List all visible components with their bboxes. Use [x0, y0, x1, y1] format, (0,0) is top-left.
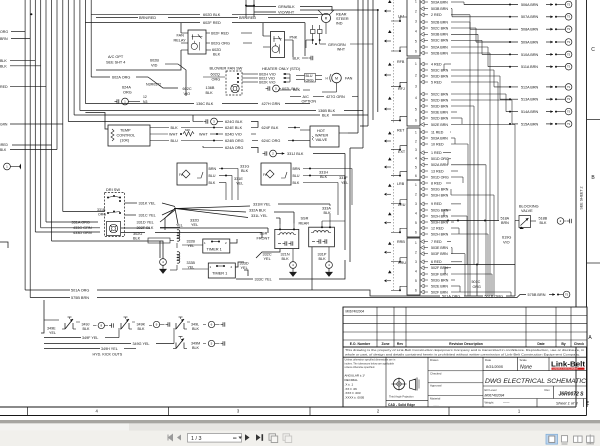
svg-text:RED: RED — [0, 85, 8, 89]
wire 433 rails to SSR — [121, 227, 150, 229]
svg-text:BLK: BLK — [0, 59, 7, 63]
connector TS bottom — [563, 291, 570, 298]
svg-text:518B: 518B — [539, 217, 548, 221]
svg-text:BRN: BRN — [501, 221, 509, 225]
svg-text:4: 4 — [415, 157, 417, 161]
svg-text:This drawing is the property o: This drawing is the property of Link-Bel… — [345, 348, 585, 352]
svg-text:602A ORG: 602A ORG — [112, 76, 130, 80]
svg-text:WHT: WHT — [169, 133, 178, 137]
svg-text:4: 4 — [415, 96, 417, 100]
wires blower to heater — [242, 73, 258, 75]
toolbar first page button — [168, 435, 173, 441]
statusbar continuous view icon — [562, 436, 568, 442]
svg-text:TS: TS — [567, 3, 570, 6]
svg-text:Third Angle Projection: Third Angle Projection — [389, 396, 414, 399]
flasher F2 — [261, 163, 291, 185]
svg-text:136B BLK: 136B BLK — [318, 109, 336, 113]
wire rail 575B BRN — [30, 297, 70, 299]
svg-text:BLK: BLK — [206, 91, 214, 95]
third angle projection symbol — [393, 378, 404, 389]
svg-text:6: 6 — [415, 231, 417, 235]
svg-text:BLK: BLK — [133, 237, 141, 241]
svg-text:EO Level: EO Level — [485, 388, 497, 392]
svg-text:1: 1 — [415, 183, 417, 187]
svg-text:HEATER ONLY (STD): HEATER ONLY (STD) — [262, 66, 301, 71]
wire 433D GRN turn — [35, 231, 100, 233]
connector hex 5 and 602L BLK — [267, 86, 269, 90]
svg-text:R: R — [325, 17, 328, 21]
svg-text:331L YEL: 331L YEL — [251, 214, 267, 218]
svg-text:/RED: /RED — [0, 143, 8, 147]
sheet inner border right — [575, 0, 577, 407]
svg-text:502H BRN: 502H BRN — [431, 214, 449, 218]
svg-text:331E: 331E — [234, 177, 243, 181]
svg-text:13 RED: 13 RED — [431, 169, 444, 173]
svg-text:511A BRN: 511A BRN — [521, 65, 538, 69]
wire drop to fan relay — [304, 23, 306, 56]
svg-text:J6R0072 S: J6R0072 S — [558, 391, 584, 397]
wire left stub BLU/RED — [12, 144, 52, 146]
svg-text:503G BRN: 503G BRN — [431, 187, 449, 191]
svg-text:502A BRN: 502A BRN — [431, 163, 448, 167]
connector circle 2 blocking — [557, 218, 564, 225]
svg-text:7 RED: 7 RED — [431, 240, 442, 244]
horizontal scrollbar track — [129, 423, 600, 430]
svg-text:Approval: Approval — [430, 384, 442, 388]
wire left stub RED — [10, 86, 46, 88]
svg-text:BLK: BLK — [0, 148, 7, 152]
svg-text:M067402094: M067402094 — [485, 393, 505, 397]
svg-text:BLK: BLK — [138, 327, 146, 331]
svg-text:SEE SHT 4: SEE SHT 4 — [106, 61, 125, 65]
switch HYD3 — [175, 323, 177, 329]
svg-text:503D BRN: 503D BRN — [431, 104, 449, 108]
wire 513A BRN to TS — [500, 98, 518, 100]
wire 624 feed — [68, 121, 193, 123]
wire 331A ORG turn — [46, 221, 98, 223]
svg-text:3: 3 — [415, 19, 417, 23]
svg-text:602G ORG: 602G ORG — [211, 42, 230, 46]
wire blocking valve feed — [430, 220, 499, 222]
svg-text:BLK: BLK — [293, 57, 301, 61]
svg-text:602D BLK: 602D BLK — [203, 13, 221, 17]
svg-text:.X ± .1: .X ± .1 — [345, 382, 354, 386]
svg-text:SSR: SSR — [260, 232, 268, 236]
svg-text:GRN: GRN — [0, 123, 8, 127]
wire 331M YEL — [175, 206, 250, 209]
svg-text:.XX ± .06: .XX ± .06 — [345, 387, 358, 391]
svg-text:VIO: VIO — [503, 241, 510, 245]
svg-text:3: 3 — [415, 85, 417, 89]
wire 331K YEL — [125, 202, 138, 204]
svg-text:333C YEL: 333C YEL — [255, 277, 272, 281]
svg-text:YEL: YEL — [236, 182, 243, 186]
svg-text:BLOCKING: BLOCKING — [519, 205, 539, 209]
svg-text:5: 5 — [415, 221, 417, 225]
svg-text:BLK: BLK — [540, 221, 548, 225]
svg-text:FRONT: FRONT — [257, 237, 271, 241]
svg-text:2: 2 — [415, 73, 417, 77]
statusbar continuous facing icon — [587, 436, 594, 442]
svg-text:501A ORG: 501A ORG — [442, 295, 460, 299]
svg-text:RRB: RRB — [397, 240, 405, 244]
svg-text:502E BRN: 502E BRN — [431, 123, 448, 127]
zone tick right 1 — [587, 119, 600, 121]
svg-text:332A BLK: 332A BLK — [249, 208, 266, 212]
svg-text:321N: 321N — [281, 253, 290, 257]
svg-text:331M YEL: 331M YEL — [253, 202, 271, 206]
svg-text:PNK: PNK — [290, 36, 298, 40]
svg-text:YEL: YEL — [176, 224, 183, 228]
wire 501C ORG drop — [430, 264, 515, 266]
svg-text:BLK: BLK — [241, 169, 249, 173]
svg-text:ORG: ORG — [98, 213, 106, 217]
wire left stub ORG — [11, 31, 25, 33]
svg-text:510A BRN: 510A BRN — [521, 53, 539, 57]
svg-text:502D BRN: 502D BRN — [431, 98, 449, 102]
svg-text:503E BRN: 503E BRN — [431, 246, 448, 250]
wire 624A ORG row — [203, 147, 223, 149]
svg-text:FAN: FAN — [345, 77, 353, 81]
svg-text:331G: 331G — [240, 165, 249, 169]
svg-text:349L: 349L — [191, 323, 199, 327]
switch bank RFB/RFJ — [407, 58, 420, 126]
svg-text:BLK: BLK — [320, 175, 328, 179]
wire kick feed — [41, 300, 44, 333]
svg-text:VIO/WHT: VIO/WHT — [278, 11, 295, 15]
svg-text:349G YEL: 349G YEL — [133, 342, 150, 346]
svg-text:A/C: A/C — [303, 95, 310, 99]
svg-text:C: C — [591, 47, 595, 53]
horizontal scrollbar thumb — [0, 423, 129, 430]
svg-text:624F BLK: 624F BLK — [262, 126, 279, 130]
wire GRN/BLK — [246, 6, 276, 8]
switch bank /LFJ — [407, 0, 420, 56]
svg-text:TS: TS — [567, 110, 570, 113]
svg-text:WHT: WHT — [199, 133, 208, 137]
statusbar single page view button active — [546, 434, 558, 444]
svg-text:1: 1 — [415, 0, 417, 3]
svg-text:433C GRN: 433C GRN — [73, 226, 92, 230]
zone tick bottom 2 — [168, 407, 170, 416]
svg-text:3: 3 — [415, 148, 417, 152]
wire 510A BRN to TS — [482, 53, 518, 55]
wire mid vertical 378 — [377, 10, 379, 112]
wire 514A BRN to TS — [506, 111, 518, 113]
label BLU ORG fan — [305, 74, 316, 83]
svg-text:349F YEL: 349F YEL — [82, 336, 98, 340]
svg-text:624E BLK: 624E BLK — [225, 126, 243, 130]
svg-text:IND: IND — [336, 22, 343, 26]
svg-text:331P: 331P — [318, 253, 327, 257]
svg-text:BLK: BLK — [322, 114, 330, 118]
svg-text:501D ORG: 501D ORG — [431, 175, 449, 179]
svg-text:624A: 624A — [122, 86, 131, 90]
svg-text:5: 5 — [415, 165, 417, 169]
svg-text:WATER: WATER — [315, 134, 329, 138]
connector circle 8 — [98, 322, 104, 328]
svg-text:12: 12 — [143, 95, 147, 99]
wire 602A ORG — [91, 76, 110, 78]
svg-text:624B ORG: 624B ORG — [225, 139, 244, 143]
svg-text:331A ORG: 331A ORG — [72, 220, 90, 224]
svg-text:502B BRN: 502B BRN — [431, 20, 448, 24]
wire 349F YEL — [44, 337, 81, 339]
relay K1 FAN RELAY — [188, 30, 206, 54]
svg-text:BRN: BRN — [0, 37, 8, 41]
svg-text:575B BRN: 575B BRN — [528, 293, 546, 297]
svg-text:TS: TS — [567, 86, 570, 89]
svg-text:4 RED: 4 RED — [431, 62, 442, 66]
svg-text:427G GRN: 427G GRN — [326, 95, 345, 99]
svg-text:Fe: Fe — [179, 173, 183, 177]
svg-text:1: 1 — [415, 241, 417, 245]
svg-text:602Q: 602Q — [211, 73, 220, 77]
svg-text:602F RED: 602F RED — [203, 21, 221, 25]
svg-text:REAR: REAR — [299, 222, 310, 226]
zone tick bottom 4 — [448, 407, 450, 416]
svg-text:619G: 619G — [502, 236, 511, 240]
svg-text:332B: 332B — [187, 240, 196, 244]
svg-text:508A BRN: 508A BRN — [521, 28, 539, 32]
svg-text:11 RED: 11 RED — [431, 130, 444, 134]
svg-text:TS: TS — [567, 41, 570, 44]
svg-text:513A BRN: 513A BRN — [521, 98, 539, 102]
fuse pair — [311, 30, 316, 34]
svg-text:OPTION: OPTION — [302, 100, 317, 104]
svg-text:502A BRN: 502A BRN — [431, 45, 448, 49]
svg-text:12 RED: 12 RED — [431, 226, 444, 230]
toolbar page combobox — [188, 434, 242, 443]
wire 509A BRN to TS — [476, 41, 518, 43]
svg-text:VALVE: VALVE — [521, 209, 533, 213]
flasher F1 — [177, 163, 207, 185]
svg-text:331C YEL: 331C YEL — [139, 213, 156, 217]
relay K2 PNK — [271, 32, 285, 58]
wire 427H GRN — [85, 103, 194, 105]
svg-text:503F BRN: 503F BRN — [431, 272, 448, 276]
svg-text:Weight: Weight — [485, 400, 494, 404]
svg-text:BRN: BRN — [209, 167, 217, 171]
svg-text:RFB: RFB — [397, 60, 405, 64]
svg-text:503F BRN: 503F BRN — [431, 252, 448, 256]
svg-text:501D ORG: 501D ORG — [431, 157, 449, 161]
toolbar next view icon — [283, 434, 290, 441]
svg-text:136C BLK: 136C BLK — [196, 102, 214, 106]
zone tick right 2 — [587, 262, 600, 264]
svg-text:502H BRN: 502H BRN — [431, 232, 449, 236]
wire bundle left verticals — [24, 0, 26, 290]
svg-text:RELAY: RELAY — [174, 39, 187, 43]
svg-text:FAN: FAN — [177, 34, 185, 38]
svg-text:331J BLK: 331J BLK — [287, 152, 304, 156]
wire left corner bottom — [0, 242, 8, 248]
svg-text:503A BRN: 503A BRN — [431, 136, 448, 140]
svg-text:8/31/2005: 8/31/2005 — [486, 365, 504, 369]
svg-text:332D: 332D — [190, 219, 199, 223]
sheet inner border bottom — [0, 406, 576, 408]
svg-text:502C BRN: 502C BRN — [431, 92, 449, 96]
svg-text:502C BRN: 502C BRN — [431, 26, 449, 30]
coil T1 a — [148, 238, 170, 243]
resistor 62K row WHT — [150, 133, 168, 135]
svg-text:331F: 331F — [339, 176, 348, 180]
wire 331L YEL — [175, 209, 248, 218]
svg-text:YEL: YEL — [191, 223, 198, 227]
svg-text:YEL: YEL — [264, 257, 271, 261]
sheet outer border right — [586, 0, 588, 416]
svg-text:EXT: EXT — [398, 150, 406, 154]
svg-text:M: M — [335, 77, 338, 81]
svg-text:4: 4 — [415, 270, 417, 274]
svg-text:509A BRN: 509A BRN — [521, 40, 539, 44]
svg-text:CONSTRUCTION EQUIPMENT: CONSTRUCTION EQUIPMENT — [553, 369, 580, 371]
svg-text:DWG ELECTRICAL SCHEMATIC: DWG ELECTRICAL SCHEMATIC — [485, 378, 587, 385]
svg-text:YEL: YEL — [188, 244, 195, 248]
svg-text:BLK: BLK — [171, 126, 179, 130]
toolbar prev view icon — [269, 434, 276, 441]
svg-text:502B BRN: 502B BRN — [431, 51, 448, 55]
svg-text:503H BRN: 503H BRN — [431, 193, 449, 197]
svg-text:GRY/GRN: GRY/GRN — [328, 43, 346, 47]
svg-text:Fe: Fe — [263, 173, 267, 177]
svg-text:349M: 349M — [191, 342, 200, 346]
svg-text:BLU: BLU — [293, 174, 300, 178]
svg-text:HYD. KICK OUTS: HYD. KICK OUTS — [93, 353, 123, 357]
svg-text:501A ORG: 501A ORG — [71, 288, 89, 292]
svg-text:503G BRN: 503G BRN — [431, 278, 449, 282]
svg-text:136B: 136B — [206, 86, 215, 90]
svg-text:BLK: BLK — [192, 346, 200, 350]
svg-text:N3R0572: N3R0572 — [146, 83, 161, 87]
svg-text:8 RED: 8 RED — [431, 181, 442, 185]
connector circle 6 — [208, 321, 214, 327]
wire left stub BLK c — [10, 149, 57, 151]
toolbar last page button — [256, 434, 261, 441]
svg-text:502E BRN: 502E BRN — [431, 284, 448, 288]
wire 624E BLK row — [150, 127, 169, 129]
svg-text:RET: RET — [397, 129, 405, 133]
svg-text:Date: Date — [537, 342, 544, 346]
svg-text:E.O. Number: E.O. Number — [350, 342, 371, 346]
svg-text:Rev: Rev — [545, 388, 551, 392]
svg-text:5: 5 — [415, 107, 417, 111]
wire left stub BLK a — [10, 59, 35, 61]
svg-text:CAD - Solid Edge: CAD - Solid Edge — [388, 403, 415, 407]
svg-text:TS: TS — [567, 123, 570, 126]
svg-text:DECIMAL: DECIMAL — [345, 378, 359, 382]
wire 602G ORG relay — [206, 42, 210, 44]
svg-text:2: 2 — [415, 9, 417, 13]
svg-text:TIMER 1: TIMER 1 — [207, 247, 222, 252]
wire SSR REAR left pin to rail — [311, 247, 313, 290]
svg-text:whole or part, of design and d: whole or part, of design and details con… — [345, 352, 580, 356]
toolbar prev page button — [177, 435, 181, 441]
svg-text:E: E — [586, 400, 589, 405]
svg-text:BLOWER FAN SW: BLOWER FAN SW — [210, 66, 243, 71]
toolbar background — [0, 431, 600, 446]
statusbar facing pages icon — [574, 436, 583, 442]
junction dots top — [30, 13, 32, 15]
svg-text:RFJ: RFJ — [398, 87, 405, 91]
svg-text:ORG: ORG — [123, 91, 132, 95]
svg-text:331H: 331H — [319, 171, 328, 175]
svg-text:BLK: BLK — [0, 64, 7, 68]
svg-text:5: 5 — [415, 39, 417, 43]
svg-text:503C BRN: 503C BRN — [431, 68, 449, 72]
connector circle 1 left — [4, 163, 11, 170]
svg-text:502F BRN: 502F BRN — [431, 266, 448, 270]
svg-text:6: 6 — [415, 289, 417, 293]
svg-text:624A ORG: 624A ORG — [225, 146, 243, 150]
timer TIMER 1 second — [208, 263, 235, 278]
svg-text:Link-Belt: Link-Belt — [551, 362, 586, 369]
svg-text:VIO: VIO — [184, 92, 191, 96]
svg-text:BRN/RED: BRN/RED — [139, 16, 156, 20]
wire 602D BLK — [91, 13, 200, 15]
svg-text:602F RED: 602F RED — [211, 32, 229, 36]
svg-text:602K VIO: 602K VIO — [259, 81, 276, 85]
svg-text:Sheet 1 of 3: Sheet 1 of 3 — [556, 400, 578, 405]
svg-text:GRN/BLK: GRN/BLK — [278, 5, 295, 9]
svg-text:6: 6 — [415, 49, 417, 53]
wire 331J BLK connector 2 — [264, 151, 266, 155]
svg-text:331B: 331B — [97, 208, 106, 212]
wire 602D BLK relay — [206, 49, 211, 51]
svg-text:512A BRN: 512A BRN — [521, 85, 539, 89]
svg-text:TS: TS — [567, 66, 570, 69]
svg-text:YEL: YEL — [241, 266, 248, 270]
svg-text:1 RED: 1 RED — [431, 151, 442, 155]
scrollbar separator band — [0, 420, 600, 423]
wire fan relay left stubs — [181, 32, 188, 34]
svg-text:333A: 333A — [322, 207, 331, 211]
svg-text:LRB: LRB — [397, 182, 405, 186]
svg-text:6: 6 — [415, 119, 417, 123]
switch bank RET/EXT — [407, 128, 420, 180]
svg-text:624C ORG: 624C ORG — [262, 139, 281, 143]
svg-text:503D BRN: 503D BRN — [431, 74, 449, 78]
svg-text:BLU: BLU — [171, 139, 179, 143]
wire GRY/GRN WHT — [320, 43, 326, 45]
svg-text:CONTROL: CONTROL — [117, 134, 136, 138]
svg-text:YEL: YEL — [49, 331, 56, 335]
svg-text:TS: TS — [567, 28, 570, 31]
svg-text:Revision Description: Revision Description — [449, 342, 483, 346]
svg-text:501B ORG: 501B ORG — [485, 295, 504, 299]
wire 515A BRN to TS — [512, 123, 518, 125]
svg-text:9 RED: 9 RED — [431, 202, 442, 206]
svg-text:BLK: BLK — [293, 88, 301, 92]
svg-text:——: —— — [503, 400, 510, 404]
connector 624G row — [205, 119, 207, 123]
svg-text:A/C OPT: A/C OPT — [108, 55, 124, 59]
svg-text:BLK: BLK — [324, 211, 332, 215]
svg-text:Zone: Zone — [381, 342, 389, 346]
svg-text:BRN: BRN — [293, 167, 301, 171]
wire 602F RED relay — [206, 32, 210, 34]
svg-text:624D VIO: 624D VIO — [225, 133, 242, 137]
rotary inside DRI SW — [107, 222, 121, 236]
wire BRN/RED rail — [96, 17, 138, 19]
wire 349H YEL — [44, 348, 100, 350]
svg-text:TS: TS — [567, 16, 570, 19]
svg-text:BLK: BLK — [319, 257, 327, 261]
svg-text:REAR: REAR — [336, 13, 347, 17]
wire rail 501A ORG — [25, 289, 70, 291]
svg-text:ORG: ORG — [0, 30, 8, 34]
motor M FAN — [332, 73, 342, 83]
